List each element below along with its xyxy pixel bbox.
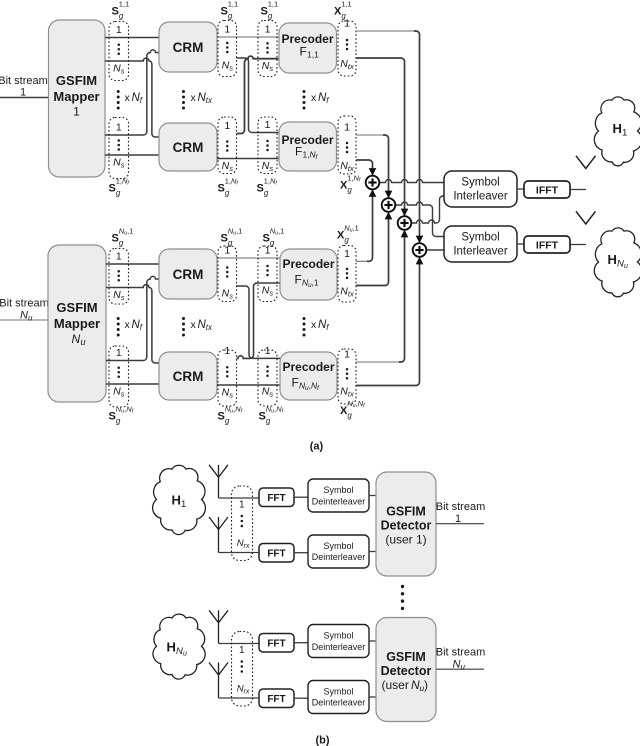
svg-text:Symbol: Symbol [461, 177, 499, 189]
svg-text:x: x [125, 92, 131, 104]
wire crossover CRM Nu-2 1 up to FNu1 Ns [237, 283, 281, 358]
io box s_k 1,Nf CRM out [218, 117, 237, 174]
svg-text:,1: ,1 [236, 226, 242, 235]
wire mapper1 out1 to CRM U1-1 [105, 37, 159, 39]
svg-text:1: 1 [224, 24, 230, 36]
wire bit stream rxNu output [436, 668, 484, 670]
svg-text:1: 1 [224, 345, 230, 357]
svg-text:1: 1 [116, 251, 122, 263]
io box X Nu,Nf precoder out [338, 349, 356, 404]
io box s Nu,1 CRM out [218, 246, 237, 302]
svg-text:F: F [295, 145, 302, 159]
wire FNu1 out2 up to adder S2 [356, 217, 389, 286]
svg-text:u: u [183, 650, 187, 657]
wire IFFT1 to antenna 1 [570, 189, 586, 191]
svg-text:u: u [28, 314, 33, 323]
svg-text:CRM: CRM [173, 267, 204, 282]
antenna V tx2 [576, 211, 596, 224]
wire mapperNu out3 crossover up to CRM Nu-1 [106, 276, 159, 360]
io box X 1,1 precoder out [338, 21, 356, 76]
svg-text:rx: rx [244, 543, 250, 550]
io box s_g 1,1 mapper out [109, 22, 129, 81]
block Symbol Deinterleaver rx1-2 [308, 535, 369, 568]
svg-text:Interleaver: Interleaver [453, 191, 508, 203]
svg-text:Symbol: Symbol [461, 232, 499, 244]
wire CRM U1-1 out1 to precoder F11 in1 [217, 36, 279, 38]
svg-text:1,1: 1,1 [268, 0, 278, 8]
svg-text:x: x [191, 319, 197, 331]
svg-text:s: s [269, 64, 273, 73]
io box s_g Nu,Nf mapper out [109, 346, 129, 407]
block Precoder F1Nf [279, 122, 337, 171]
wire mapper1 out3 crossover up to CRM U1-1 [105, 50, 159, 135]
svg-text:Deinterleaver: Deinterleaver [312, 497, 366, 507]
block CRM Nu-2 [159, 352, 217, 400]
svg-text:g: g [264, 189, 269, 198]
svg-text:H: H [167, 639, 176, 654]
svg-text:N: N [453, 659, 461, 671]
svg-text:g: g [225, 189, 230, 198]
svg-text:1: 1 [344, 248, 350, 260]
svg-text:Bit stream: Bit stream [0, 75, 48, 87]
antenna rx rxNu-2 [209, 663, 228, 676]
block IFFT 1 [524, 181, 570, 198]
svg-text:tx: tx [348, 164, 354, 173]
block FFT rx1-1 [259, 488, 294, 507]
svg-text:1: 1 [622, 128, 627, 139]
svg-text:g: g [266, 417, 271, 426]
svg-text:N: N [20, 310, 28, 322]
adder S4 [413, 243, 427, 257]
svg-text:s: s [229, 291, 233, 300]
svg-text:tx: tx [348, 289, 354, 298]
wire CRM Nu-2 out2 to precoder FNuNf in2 [217, 384, 280, 386]
replication marker x Ntx CRMs Nu [182, 317, 185, 320]
block GSFIM Detector rxNu [376, 618, 436, 722]
wire F11 out1 down to adder S4 [356, 30, 414, 32]
block GSFIM Mapper 1 [49, 20, 106, 177]
svg-text:(b): (b) [315, 735, 329, 746]
wire CRM Nu-1 out1 to precoder FNu1 in1 [217, 257, 280, 259]
block Precoder FNu1 [280, 249, 337, 300]
svg-text:1,1: 1,1 [119, 0, 129, 8]
block FFT rxNu-1 [259, 634, 294, 653]
svg-text:g: g [228, 239, 233, 248]
svg-text:Deinterleaver: Deinterleaver [312, 642, 366, 652]
replication marker x Ntx CRMs U1 [182, 90, 185, 93]
replication marker x Nf precoders U1 [303, 90, 306, 93]
svg-text:CRM: CRM [173, 369, 204, 384]
svg-text:s: s [229, 390, 233, 399]
svg-text:Mapper: Mapper [54, 316, 100, 331]
svg-text:x: x [311, 319, 317, 331]
svg-text:s: s [121, 66, 125, 75]
antenna rx rxNu-1 [209, 610, 228, 623]
wire adder S1 to Symbol Interleaver 1 [379, 180, 444, 183]
svg-text:(a): (a) [310, 441, 324, 453]
cloud HNu tx [594, 228, 640, 297]
svg-text:FFT: FFT [267, 493, 285, 504]
svg-text:GSFIM: GSFIM [56, 73, 97, 88]
io box s Nu,Nf CRM out [218, 350, 237, 406]
wire SI2 to IFFT2 [517, 243, 524, 245]
cloud H rxNu rx [153, 614, 205, 679]
adder S2 [382, 198, 396, 212]
wire deinterleaver rxNu-2 to detector [369, 696, 376, 698]
svg-text:1: 1 [344, 349, 350, 361]
wire crossover CRM U1 Ns down to F1Nf [237, 58, 280, 133]
wire F1Nf out2 down to adder S1 [356, 160, 373, 171]
dots rx box rxNu [241, 660, 244, 663]
wire deinterleaver rx1-1 to detector [369, 495, 376, 497]
wire mapperNu out4 to CRM Nu-2 [106, 383, 159, 385]
svg-text:IFFT: IFFT [536, 185, 559, 197]
svg-text:,1: ,1 [312, 278, 319, 288]
svg-text:1: 1 [265, 119, 271, 131]
block FFT rx1-2 [259, 544, 294, 563]
block Symbol Interleaver 1 [444, 171, 517, 207]
svg-text:1,1: 1,1 [341, 0, 351, 8]
svg-text:tx: tx [206, 323, 213, 332]
replication marker x Nf mapper1 [117, 90, 120, 93]
svg-text:g: g [268, 12, 273, 21]
svg-text:): ) [424, 678, 428, 692]
svg-text:FFT: FFT [267, 694, 285, 705]
svg-text:Symbol: Symbol [323, 687, 353, 697]
svg-text:s: s [269, 288, 273, 297]
svg-text:u: u [461, 663, 466, 672]
svg-text:F: F [300, 45, 307, 59]
wire adder S2 jog to Symbol Interleaver 2 [395, 202, 429, 205]
svg-text:Precoder: Precoder [281, 32, 333, 46]
wire FFT rx1-2 to deinterleaver [294, 552, 308, 554]
dotted antenna index box rx rxNu [232, 632, 253, 707]
wire FNu1 out1 up to adder S1 [356, 260, 367, 262]
svg-text:IFFT: IFFT [536, 240, 559, 252]
antenna V tx1 [576, 156, 596, 169]
wire deinterleaver rxNu-1 to detector [369, 640, 376, 642]
io box s_g 1,Nf mapper out [109, 118, 129, 179]
block Symbol Interleaver 2 [444, 226, 517, 262]
svg-text:g: g [347, 186, 352, 195]
svg-text:N: N [176, 646, 183, 657]
wire crossover CRM U1-2 1 up to F11 Ns [237, 56, 280, 133]
io box X Nu,1 precoder out [338, 246, 356, 303]
wire deinterleaver rx1-2 to detector [369, 551, 376, 553]
block FFT rxNu-2 [259, 689, 294, 708]
svg-text:1: 1 [181, 499, 186, 510]
wire mapperNu out2 crossover down to CRM Nu-2 [106, 285, 159, 363]
adder S1 [366, 176, 380, 190]
block Symbol Deinterleaver rx1-1 [308, 479, 369, 512]
svg-text:u: u [624, 263, 628, 270]
svg-text:rx: rx [244, 688, 250, 695]
svg-text:1: 1 [239, 500, 245, 511]
wire mapperNu out1 to CRM Nu-1 [106, 263, 159, 265]
svg-text:CRM: CRM [173, 140, 204, 155]
wire antenna rxNu-1 to FFT [219, 643, 260, 645]
io box precoder FNuNf in [258, 350, 277, 406]
svg-text:u: u [81, 337, 86, 347]
svg-text:g: g [225, 417, 230, 426]
svg-text:tx: tx [348, 389, 354, 398]
replication marker x Nf mapperNu [117, 317, 120, 320]
svg-text:,1: ,1 [353, 223, 359, 232]
svg-text:Deinterleaver: Deinterleaver [312, 698, 366, 708]
block Symbol Deinterleaver rxNu-2 [308, 681, 369, 714]
wire FFT rxNu-2 to deinterleaver [294, 697, 308, 699]
wire FNuNf out2 up to adder S4 [356, 262, 420, 386]
block Precoder FNuNf [280, 352, 337, 400]
svg-text:g: g [119, 239, 124, 248]
svg-text:g: g [116, 189, 121, 198]
replication marker x Nf precoders Nu [303, 317, 306, 320]
svg-text:s: s [229, 164, 233, 173]
svg-text:Precoder: Precoder [282, 360, 334, 374]
block GSFIM Mapper Nu [48, 245, 106, 402]
svg-text:Symbol: Symbol [323, 541, 353, 551]
wire antenna rx1-2 to FFT [219, 552, 260, 554]
svg-text:Deinterleaver: Deinterleaver [312, 552, 366, 562]
svg-text:g: g [119, 12, 124, 21]
wire mapper1 out4 to CRM U1-2 [105, 154, 159, 156]
wire IFFT2 to antenna 2 [570, 244, 586, 246]
svg-text:x: x [311, 92, 317, 104]
svg-text:1,1: 1,1 [307, 50, 319, 60]
svg-text:1: 1 [344, 122, 350, 134]
wire FNuNf out1 up to adder S3 [356, 361, 399, 363]
svg-text:Precoder: Precoder [281, 133, 333, 147]
svg-text:s: s [121, 389, 125, 398]
dots rx box rx1 [241, 515, 244, 518]
svg-text:1: 1 [455, 513, 461, 525]
svg-text:(user 1): (user 1) [385, 533, 426, 547]
svg-text:CRM: CRM [173, 40, 204, 55]
svg-text:1: 1 [116, 122, 122, 134]
svg-text:x: x [191, 92, 197, 104]
svg-text:,1: ,1 [278, 226, 284, 235]
svg-text:1: 1 [265, 24, 271, 36]
svg-text:s: s [121, 293, 125, 302]
wire F1Nf out1 down to adder S2 [356, 134, 383, 136]
wire adder S3 jog to Symbol Interleaver 1 [411, 220, 436, 223]
svg-text:g: g [116, 417, 121, 426]
svg-text:s: s [121, 160, 125, 169]
io box precoder F11 in [258, 21, 277, 77]
wire bit stream rx1 output [436, 523, 484, 525]
block GSFIM Detector rx1 [376, 472, 436, 576]
wire CRM U1-2 out2 to precoder F1Nf in2 [217, 158, 279, 160]
svg-text:g: g [344, 236, 349, 245]
dots between detectors [401, 585, 404, 588]
io box precoder FNu1 in [258, 246, 277, 302]
svg-text:1: 1 [116, 347, 122, 359]
antenna rx rx1-2 [209, 517, 228, 530]
block Precoder F11 [279, 23, 337, 73]
svg-text:g: g [347, 411, 352, 420]
io box s_g Nu,1 mapper out [109, 249, 129, 305]
svg-text:Precoder: Precoder [282, 257, 334, 271]
wire bit stream 1 input [0, 97, 49, 99]
svg-text:Bit stream: Bit stream [0, 298, 49, 310]
wire F11 out2 down to adder S3 [356, 58, 405, 212]
svg-text:F: F [292, 376, 299, 390]
wire crossover CRM Nu Ns down to FNuNf [237, 286, 281, 358]
cloud H1 tx [594, 97, 640, 166]
svg-text:1: 1 [224, 120, 230, 132]
svg-text:H: H [608, 252, 617, 267]
svg-text:Mapper: Mapper [53, 89, 99, 104]
svg-text:,1: ,1 [127, 226, 133, 235]
svg-text:tx: tx [206, 96, 213, 105]
block CRM Nu-1 [159, 249, 217, 299]
svg-text:1: 1 [73, 105, 80, 119]
svg-text:s: s [269, 389, 273, 398]
io box s_k 1,1 CRM out [218, 21, 237, 77]
svg-text:1,1: 1,1 [228, 0, 238, 8]
svg-text:x: x [125, 319, 131, 331]
svg-text:s: s [269, 164, 273, 173]
svg-text:Bit stream: Bit stream [436, 647, 486, 659]
io box precoder F1Nf in [258, 117, 277, 174]
svg-text:Symbol: Symbol [323, 485, 353, 495]
svg-text:F: F [295, 273, 302, 287]
svg-text:H: H [613, 121, 622, 136]
dotted antenna index box rx rx1 [232, 486, 253, 561]
block CRM U1-2 [159, 123, 217, 171]
svg-text:FFT: FFT [267, 639, 285, 650]
block Symbol Deinterleaver rxNu-1 [308, 625, 369, 658]
wire antenna rxNu-2 to FFT [219, 697, 260, 699]
svg-text:tx: tx [348, 62, 354, 71]
svg-text:(user: (user [382, 678, 409, 692]
svg-text:1: 1 [20, 87, 26, 99]
wire SI1 to IFFT1 [517, 188, 524, 190]
wire mapper1 out2 crossover down to CRM U1-2 [105, 58, 159, 137]
svg-text:Detector: Detector [381, 664, 432, 678]
svg-text:GSFIM: GSFIM [386, 505, 426, 519]
cloud H rx1 rx [153, 465, 206, 534]
svg-text:N: N [617, 259, 624, 270]
svg-text:Bit stream: Bit stream [436, 501, 486, 513]
svg-text:g: g [270, 239, 275, 248]
antenna rx rx1-1 [209, 465, 228, 478]
wire FFT rx1-1 to deinterleaver [294, 496, 308, 498]
svg-text:GSFIM: GSFIM [386, 650, 426, 664]
svg-text:1: 1 [116, 24, 122, 36]
svg-text:FFT: FFT [267, 549, 285, 560]
svg-text:1: 1 [265, 345, 271, 357]
svg-text:Interleaver: Interleaver [453, 246, 508, 258]
wire FFT rxNu-1 to deinterleaver [294, 642, 308, 644]
svg-text:N: N [72, 332, 81, 346]
block IFFT 2 [524, 236, 570, 253]
block CRM U1-1 [159, 22, 217, 72]
wire adder S4 to Symbol Interleaver 2 [426, 249, 444, 251]
svg-text:GSFIM: GSFIM [56, 300, 97, 315]
svg-text:Detector: Detector [381, 519, 432, 533]
svg-text:H: H [172, 493, 181, 508]
svg-text:g: g [341, 12, 346, 21]
svg-text:Symbol: Symbol [323, 631, 353, 641]
io box X 1,Nf precoder out [338, 116, 356, 174]
svg-text:s: s [229, 63, 233, 72]
wire antenna rx1-1 to FFT [219, 497, 260, 499]
wire bit stream Nu input [0, 319, 48, 321]
svg-text:g: g [228, 12, 233, 21]
svg-text:1: 1 [239, 645, 245, 656]
adder S3 [398, 216, 412, 230]
